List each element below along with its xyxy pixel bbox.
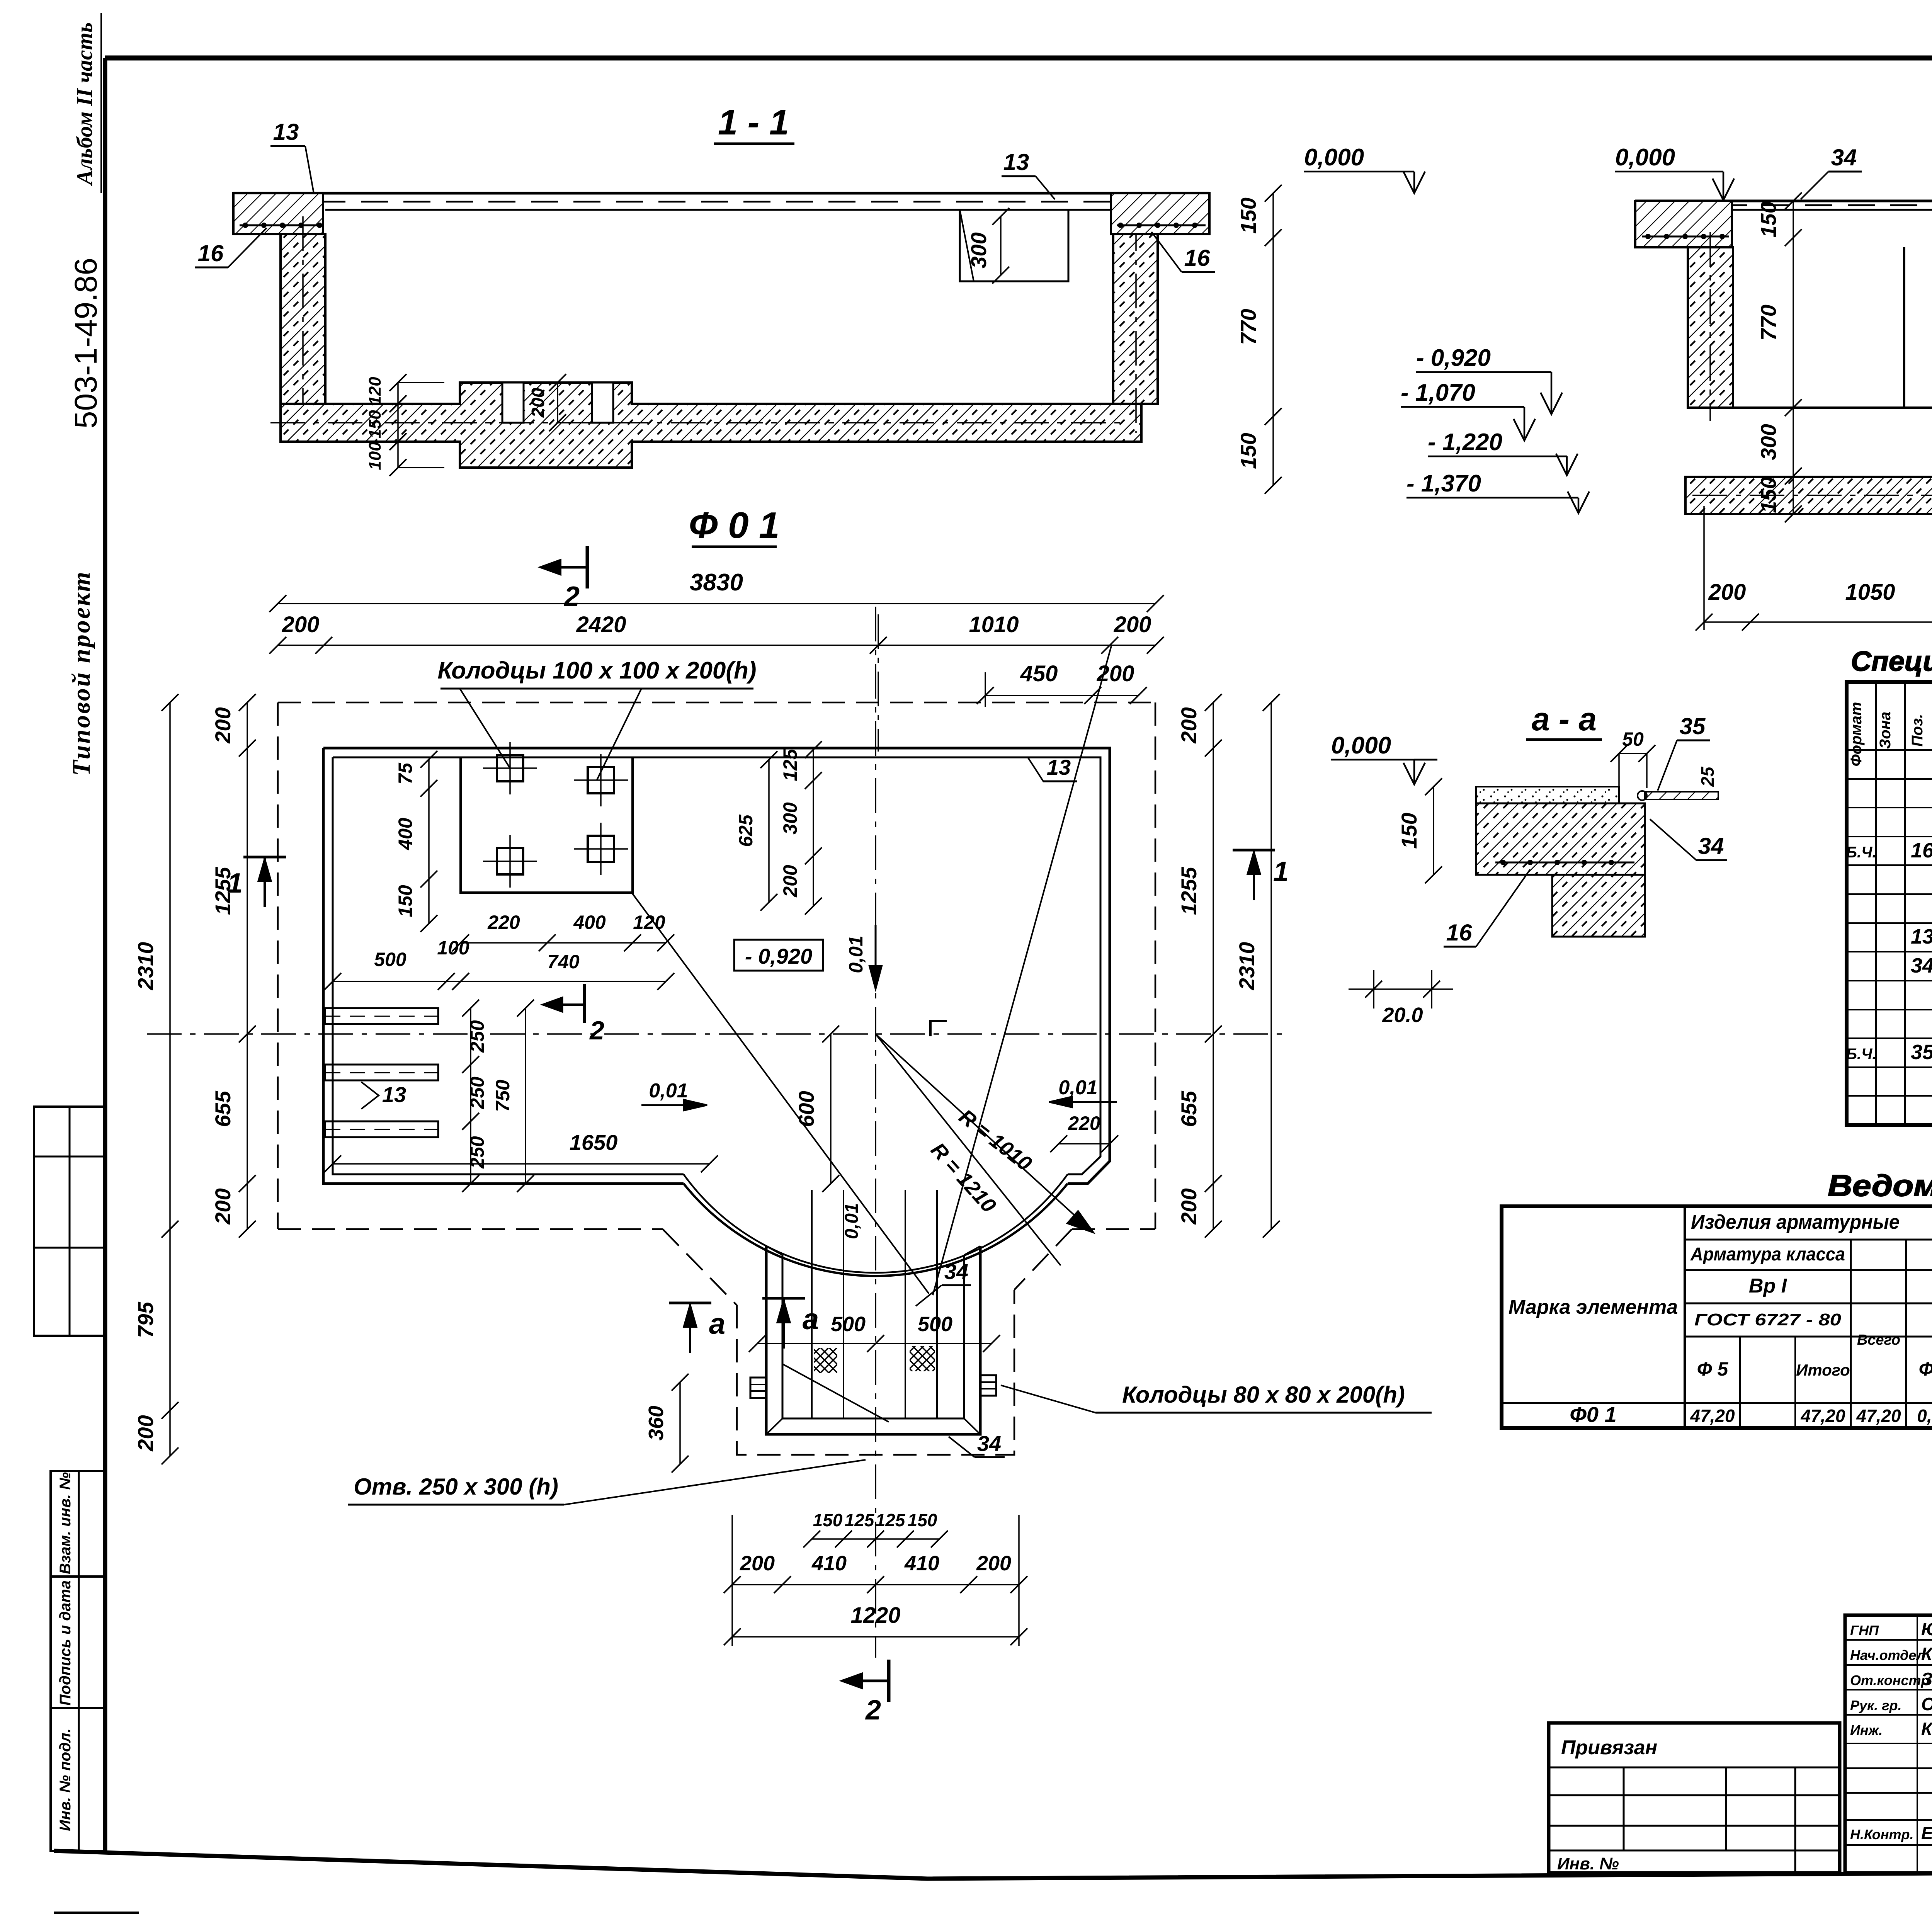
plan pit bottom dims 200 410 410 200	[732, 1584, 1019, 1585]
svg-text:34: 34	[1831, 145, 1857, 170]
svg-text:500: 500	[831, 1313, 866, 1336]
svg-text:47,20: 47,20	[1800, 1406, 1845, 1426]
plan pit bottom dim 1220	[732, 1636, 1019, 1638]
plan left outer dim chain	[169, 702, 171, 1229]
plan pit inner wall	[782, 1255, 964, 1418]
section 1-1 left slab rebar dots	[240, 224, 321, 226]
svg-text:2: 2	[563, 581, 580, 612]
section 1-1 bottom slab centerline	[270, 422, 1121, 423]
section 2-2 room floor line	[1733, 406, 1932, 409]
plan pad well 1	[497, 755, 523, 781]
detail a-a dim 50	[1619, 753, 1647, 754]
svg-text:150: 150	[1756, 477, 1781, 513]
svg-text:200: 200	[779, 865, 801, 898]
svg-text:1255: 1255	[1177, 867, 1201, 915]
svg-text:120: 120	[366, 377, 384, 405]
svg-text:47,20: 47,20	[1856, 1406, 1901, 1426]
svg-text:360: 360	[645, 1406, 668, 1440]
svg-text:200: 200	[1708, 580, 1746, 605]
svg-text:0,57: 0,57	[1917, 1406, 1932, 1426]
plan right inner dim chain	[1213, 702, 1214, 1229]
section 1-1 left wall centerline	[302, 216, 304, 433]
plan foundation wall inner line	[333, 757, 1100, 1174]
plan top partial centerline	[878, 614, 879, 752]
svg-text:Колодцы 100 х 100 х 200(h): Колодцы 100 х 100 х 200(h)	[437, 657, 756, 684]
detail a-a dim 150	[1433, 787, 1434, 875]
svg-text:Отв. 250 х 300 (h): Отв. 250 х 300 (h)	[354, 1474, 558, 1500]
svg-text:Б.Ч.: Б.Ч.	[1846, 1046, 1877, 1063]
plan pit side bolt right	[980, 1375, 996, 1396]
svg-text:410: 410	[904, 1552, 939, 1575]
svg-text:1650: 1650	[570, 1130, 618, 1155]
section 1-1 right dim chain 150 770 150	[1272, 193, 1274, 485]
plan pad well 2	[588, 767, 614, 793]
svg-text:655: 655	[211, 1090, 235, 1127]
svg-text:Поз.: Поз.	[1909, 714, 1926, 747]
svg-text:25: 25	[1697, 766, 1718, 787]
svg-text:200: 200	[1097, 661, 1134, 686]
svg-text:740: 740	[547, 951, 580, 973]
plan pit dim 500 500	[757, 1343, 992, 1344]
section 2-2 left wall hatched	[1688, 247, 1733, 408]
svg-text:Подпись и дата: Подпись и дата	[57, 1580, 74, 1706]
section 1-1 right floor slab block hatched	[1111, 193, 1209, 234]
svg-text:0,000: 0,000	[1615, 144, 1675, 171]
plan left pit chain 795 200	[169, 1229, 171, 1456]
svg-text:0,01: 0,01	[845, 935, 867, 973]
plan arc edge inner	[684, 1174, 1068, 1273]
svg-text:Инв. №: Инв. №	[1557, 1854, 1619, 1873]
svg-text:125: 125	[845, 1510, 875, 1530]
svg-text:1220: 1220	[850, 1603, 900, 1628]
plan outer dashed rectangle	[278, 702, 1155, 704]
left stamp column: vzam inv	[51, 1471, 105, 1577]
svg-text:Изделия арматурные: Изделия арматурные	[1691, 1211, 1900, 1233]
plan right outer dim chain	[1270, 702, 1272, 1229]
drawing frame border	[105, 56, 1932, 61]
svg-text:Б.Ч.: Б.Ч.	[1846, 844, 1877, 861]
svg-text:200: 200	[528, 388, 548, 418]
plan top dim row 200 2420 1010 200	[278, 645, 1155, 646]
svg-text:770: 770	[1236, 309, 1260, 345]
svg-text:500: 500	[374, 949, 406, 970]
svg-text:2310: 2310	[1235, 942, 1259, 991]
detail a-a slab hatched	[1476, 803, 1645, 875]
svg-text:300: 300	[779, 802, 801, 835]
plan equipment pad rectangle	[461, 757, 633, 893]
svg-text:16: 16	[1911, 839, 1932, 862]
svg-text:Ф 6: Ф 6	[1919, 1358, 1932, 1380]
svg-text:120: 120	[633, 912, 665, 933]
svg-text:а - а: а - а	[1532, 701, 1597, 737]
svg-text:Взам. инв. №: Взам. инв. №	[57, 1472, 74, 1574]
section 1-1 left floor slab block hatched	[233, 193, 323, 234]
svg-text:16: 16	[1184, 245, 1210, 271]
svg-text:150: 150	[908, 1510, 937, 1530]
svg-text:35: 35	[1911, 1041, 1932, 1064]
svg-text:2: 2	[865, 1695, 881, 1726]
section 2-2 floor slab band	[1635, 200, 1932, 202]
plan pad dims 100 500 740	[333, 981, 461, 982]
svg-text:2: 2	[589, 1016, 604, 1045]
svg-text:Марка элемента: Марка элемента	[1509, 1296, 1678, 1318]
svg-text:Привязан: Привязан	[1561, 1736, 1657, 1759]
svg-text:Катков: Катков	[1921, 1644, 1932, 1664]
left stamp column: inv no podl	[51, 1708, 105, 1851]
svg-text:Киреев: Киреев	[1921, 1719, 1932, 1739]
svg-text:Ф 0 1: Ф 0 1	[689, 505, 779, 546]
plan foundation wall outer line	[323, 748, 1110, 1184]
svg-text:200: 200	[740, 1552, 775, 1575]
svg-text:750: 750	[492, 1080, 514, 1112]
svg-text:a: a	[709, 1308, 725, 1340]
plan pad well 4	[588, 836, 614, 862]
svg-text:13: 13	[1047, 755, 1071, 779]
svg-text:400: 400	[395, 818, 416, 850]
svg-text:Всего: Всего	[1857, 1332, 1900, 1348]
svg-text:200: 200	[282, 612, 320, 637]
plan dim 600	[830, 1034, 832, 1184]
svg-text:13: 13	[1911, 925, 1932, 948]
section 1-1 left wall hatched	[281, 234, 325, 404]
svg-text:503-1-49.86: 503-1-49.86	[68, 258, 104, 429]
svg-text:1050: 1050	[1845, 580, 1895, 605]
plan dashed diagonal to pit left	[663, 1229, 737, 1305]
plan section cut 1 right	[1233, 849, 1275, 852]
svg-text:795: 795	[133, 1301, 158, 1338]
svg-text:16: 16	[198, 240, 224, 266]
svg-text:От.констр: От.констр	[1850, 1672, 1930, 1688]
svg-text:0,01: 0,01	[1058, 1077, 1097, 1099]
svg-text:13: 13	[1003, 149, 1029, 175]
detail a-a screed stipple layer	[1476, 787, 1619, 803]
plan radius leader R=1010	[876, 1034, 1094, 1233]
svg-text:2310: 2310	[133, 942, 158, 991]
plan horizontal centerline	[147, 1033, 1291, 1035]
section 2-2 deep slab centerline	[1692, 495, 1932, 496]
plan section cut 2 top	[586, 546, 589, 588]
svg-text:250: 250	[466, 1077, 488, 1109]
plan pit bottom dims 150 125 125 150	[812, 1538, 939, 1540]
detail a-a steel plate	[1645, 792, 1718, 799]
section 1-1 right wall hatched	[1113, 234, 1158, 404]
svg-text:34: 34	[1698, 833, 1724, 859]
plan pit outer wall	[766, 1246, 980, 1434]
section 1-1 bench well notch left	[502, 383, 524, 423]
svg-text:Спецификация на фундамент п: Спецификация на фундамент под оборудован…	[1851, 646, 1932, 677]
svg-text:150: 150	[1236, 197, 1260, 233]
svg-text:150: 150	[1397, 813, 1421, 849]
plan left inner dim chain	[247, 702, 248, 1229]
svg-text:1: 1	[227, 868, 243, 899]
svg-text:Оруджева: Оруджева	[1921, 1694, 1932, 1714]
steel table grid	[1502, 1206, 1932, 1428]
svg-text:Нач.отдел: Нач.отдел	[1850, 1647, 1925, 1663]
svg-text:100: 100	[437, 937, 469, 959]
svg-text:ГНП: ГНП	[1850, 1622, 1879, 1638]
svg-text:770: 770	[1756, 304, 1781, 340]
plan pad well 3	[497, 848, 523, 874]
svg-text:150: 150	[395, 885, 416, 917]
plan wells leader lines	[460, 689, 510, 768]
svg-text:Арматура класса: Арматура класса	[1690, 1244, 1845, 1265]
svg-text:100: 100	[366, 442, 384, 470]
section 2-2 deep slab left hatched	[1685, 477, 1932, 514]
plan arc edge outer	[684, 1184, 1068, 1276]
svg-text:Колодцы 80 х 80 х 200(h): Колодцы 80 х 80 х 200(h)	[1122, 1382, 1405, 1408]
svg-text:Типовой проект: Типовой проект	[67, 570, 95, 776]
title block privyazan box	[1549, 1723, 1840, 1873]
svg-text:Рук. гр.: Рук. гр.	[1850, 1697, 1902, 1713]
plan inner section cut 2	[583, 984, 586, 1023]
svg-text:- 0,920: - 0,920	[1416, 345, 1491, 371]
svg-text:0,000: 0,000	[1304, 144, 1364, 171]
title block signature table	[1845, 1615, 1932, 1873]
svg-text:34: 34	[944, 1259, 968, 1284]
svg-text:Ф 5: Ф 5	[1697, 1358, 1729, 1380]
svg-text:13: 13	[273, 119, 299, 145]
plan left beams strip 2	[325, 1065, 438, 1080]
svg-text:410: 410	[811, 1552, 847, 1575]
stray mark bottom left	[54, 1912, 139, 1914]
plan pit section a marks	[669, 1302, 711, 1304]
plan dim 1650	[333, 1163, 709, 1165]
svg-text:150: 150	[1756, 201, 1781, 237]
plan pit channel lines	[811, 1190, 813, 1418]
plan long leader to pit 2	[933, 646, 1111, 1295]
svg-text:35: 35	[1680, 713, 1706, 739]
section 2-2 bottom dim row 200 1050 150 1080 625 200	[1704, 621, 1932, 623]
left ledger table	[34, 1107, 105, 1336]
plan top dim 3830	[278, 603, 1155, 604]
plan pad dims 75 400 150	[428, 759, 430, 923]
svg-text:Ф0 1: Ф0 1	[1570, 1402, 1617, 1427]
svg-text:13: 13	[382, 1082, 406, 1107]
svg-text:a: a	[803, 1303, 819, 1336]
detail a-a dim 20.0	[1373, 970, 1374, 1009]
svg-text:34: 34	[977, 1431, 1001, 1456]
svg-text:Итого: Итого	[1796, 1361, 1850, 1379]
svg-text:Инж.: Инж.	[1850, 1722, 1883, 1738]
section 1-1 floor slab band	[233, 192, 1209, 195]
svg-text:Вр I: Вр I	[1749, 1275, 1787, 1297]
svg-text:200: 200	[1177, 707, 1201, 743]
svg-text:Инв. № подл.: Инв. № подл.	[57, 1728, 74, 1831]
svg-text:- 1,370: - 1,370	[1406, 470, 1481, 497]
svg-text:200: 200	[1177, 1188, 1201, 1225]
svg-text:75: 75	[395, 762, 416, 784]
svg-text:200: 200	[976, 1552, 1011, 1575]
detail a-a rebar line	[1495, 862, 1634, 864]
svg-text:150: 150	[1236, 433, 1260, 469]
svg-text:Альбом II часть: Альбом II часть	[72, 22, 97, 186]
svg-text:0,01: 0,01	[649, 1080, 688, 1102]
svg-text:625: 625	[735, 814, 757, 847]
svg-text:150: 150	[813, 1510, 843, 1530]
section 1-1 detail box 300	[960, 210, 1068, 281]
svg-text:- 1,220: - 1,220	[1428, 429, 1502, 456]
svg-text:1: 1	[1273, 856, 1289, 887]
svg-text:Юрин: Юрин	[1921, 1619, 1932, 1639]
svg-text:- 1,070: - 1,070	[1401, 379, 1475, 406]
svg-text:220: 220	[1068, 1112, 1100, 1134]
svg-text:Н.Контр.: Н.Контр.	[1850, 1827, 1914, 1842]
svg-text:Ведомость расхода стали на: Ведомость расхода стали на элемент, кг	[1828, 1168, 1932, 1202]
svg-text:16: 16	[1446, 920, 1472, 946]
svg-text:400: 400	[573, 912, 606, 933]
svg-text:2420: 2420	[576, 612, 626, 637]
plan section cut 1 left	[243, 856, 286, 859]
svg-text:50: 50	[1622, 728, 1644, 750]
section 2-2 left slab block hatched	[1635, 201, 1732, 247]
svg-text:200: 200	[133, 1415, 158, 1451]
svg-text:Зона: Зона	[1877, 712, 1894, 749]
plan pit crosshatch well right	[910, 1346, 935, 1371]
svg-text:200: 200	[211, 707, 235, 743]
svg-text:150: 150	[366, 410, 384, 439]
svg-text:450: 450	[1020, 661, 1058, 686]
plan left beams strip 1	[325, 1008, 438, 1024]
plan pit wall corner lines	[766, 1246, 782, 1255]
svg-text:1010: 1010	[969, 612, 1019, 637]
plan level mark -0.920 box	[734, 940, 823, 971]
svg-text:0,000: 0,000	[1331, 732, 1391, 759]
plan beam dims 250 250 750 250	[470, 1008, 471, 1121]
svg-text:47,20: 47,20	[1690, 1406, 1735, 1426]
plan pit dim 360	[679, 1382, 681, 1464]
section 1-1 bottom slab with central bench	[281, 383, 1141, 468]
svg-text:- 0,920: - 0,920	[745, 944, 812, 968]
left stamp column: podpis i data	[51, 1577, 105, 1708]
plan radius leader R=1210	[876, 1034, 1061, 1265]
plan pit crosshatch well left	[814, 1348, 837, 1373]
plan left beams strip 3	[325, 1121, 438, 1137]
plan vertical centerline	[875, 607, 876, 1658]
svg-text:200: 200	[1114, 612, 1151, 637]
section 2-2 left dim chain 150 770 300 150	[1793, 201, 1794, 514]
plan center corner mark	[930, 1021, 947, 1036]
svg-text:34: 34	[1911, 954, 1932, 977]
detail a-a wall block hatched	[1552, 875, 1645, 937]
plan long leader to pit 1	[633, 894, 929, 1294]
svg-text:ГОСТ 6727 - 80: ГОСТ 6727 - 80	[1694, 1310, 1842, 1329]
svg-text:Формат: Формат	[1848, 702, 1865, 767]
svg-text:125: 125	[779, 748, 801, 781]
svg-text:655: 655	[1177, 1090, 1201, 1127]
svg-text:125: 125	[876, 1510, 906, 1530]
plan section cut 2 bottom	[887, 1660, 891, 1702]
svg-text:20.0: 20.0	[1382, 1003, 1423, 1027]
plan pad dims 220 400 120	[461, 942, 666, 944]
svg-text:0,01: 0,01	[842, 1203, 862, 1239]
svg-text:1 - 1: 1 - 1	[718, 103, 789, 142]
svg-text:300: 300	[1756, 424, 1781, 460]
plan dashed diagonal to pit right	[1014, 1229, 1072, 1290]
svg-text:600: 600	[794, 1091, 818, 1127]
section 1-1 bench well notch right	[592, 383, 613, 423]
specification table grid	[1847, 682, 1932, 1125]
plan pit dashed outline	[737, 1290, 1014, 1455]
svg-text:3830: 3830	[690, 569, 743, 596]
svg-text:Зильбертов: Зильбертов	[1921, 1669, 1932, 1689]
plan dim 220 right	[1059, 1143, 1110, 1145]
svg-text:220: 220	[487, 912, 520, 933]
svg-text:ЕСИНА: ЕСИНА	[1921, 1823, 1932, 1843]
plan pad dims 125 300 200 625	[813, 750, 814, 906]
svg-text:200: 200	[211, 1188, 235, 1225]
plan pit side bolt left	[750, 1378, 766, 1398]
plan top dim row 450 200	[985, 695, 1138, 696]
section 1-1 bench dims 120 150 100 200	[397, 383, 399, 404]
svg-text:250: 250	[466, 1020, 488, 1053]
svg-text:500: 500	[918, 1313, 952, 1336]
section 2-2 room wall verticals	[1903, 247, 1905, 408]
